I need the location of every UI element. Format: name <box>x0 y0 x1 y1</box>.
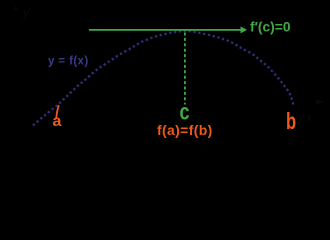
svg-text:f′(c)=0: f′(c)=0 <box>250 19 291 34</box>
svg-text:b: b <box>286 109 296 134</box>
curve y=f(x) dotted blue <box>33 31 294 126</box>
faint x-axis arrowhead <box>316 99 325 104</box>
faint y-axis arrowhead <box>13 6 18 10</box>
tangent arrowhead <box>241 26 248 33</box>
svg-text:y = f(x): y = f(x) <box>48 56 89 68</box>
svg-text:x: x <box>305 110 313 125</box>
svg-text:y: y <box>22 4 31 20</box>
tangent line at c <box>89 29 241 31</box>
svg-text:f(a)=f(b): f(a)=f(b) <box>157 122 213 138</box>
accent stroke on a <box>56 105 59 118</box>
vertical dashed line at c <box>184 33 186 105</box>
